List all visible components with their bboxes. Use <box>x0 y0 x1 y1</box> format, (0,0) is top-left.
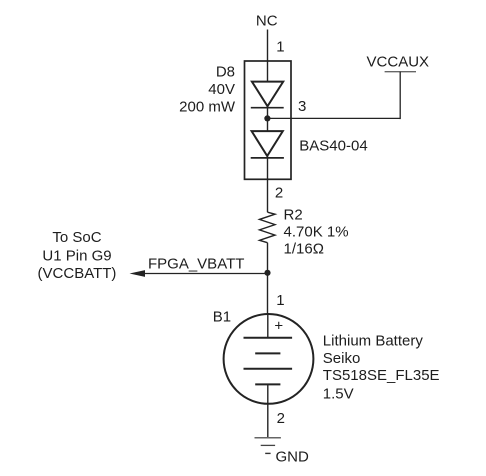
node FPGA_VBATT junction <box>264 270 270 276</box>
svg-text:1: 1 <box>276 292 284 309</box>
wire pin 3 to VCCAUX <box>267 117 400 119</box>
resistor R2 <box>260 212 276 243</box>
label To SoC U1 Pin G9 (VCCBATT) <box>38 229 117 282</box>
svg-text:1/16Ω: 1/16Ω <box>284 240 324 257</box>
svg-text:To SoC: To SoC <box>52 229 101 246</box>
label D8 40V 200 mW <box>179 64 236 116</box>
svg-text:3: 3 <box>298 98 306 115</box>
svg-text:NC: NC <box>256 13 278 30</box>
wire between diodes <box>267 106 269 131</box>
diode package D8 outline <box>245 61 292 179</box>
svg-text:BAS40-04: BAS40-04 <box>299 138 367 155</box>
svg-text:D8: D8 <box>216 64 235 81</box>
svg-text:+: + <box>274 318 283 335</box>
battery B1 circle <box>224 314 314 404</box>
svg-text:FPGA_VBATT: FPGA_VBATT <box>148 255 244 272</box>
svg-text:2: 2 <box>277 410 285 427</box>
wire into battery top <box>267 314 269 338</box>
svg-text:200 mW: 200 mW <box>179 99 236 116</box>
wire NC to diode package <box>267 30 269 82</box>
svg-text:U1 Pin G9: U1 Pin G9 <box>42 247 111 264</box>
svg-text:R2: R2 <box>284 206 303 223</box>
wire resistor to battery <box>267 243 269 315</box>
label R2 4.70K 1% 1/16ohm <box>284 206 349 257</box>
wire battery to ground <box>267 384 269 437</box>
wire VCCAUX down <box>399 72 401 119</box>
svg-text:4.70K 1%: 4.70K 1% <box>284 223 349 240</box>
svg-text:40V: 40V <box>208 81 235 98</box>
junction node pin 3 <box>264 115 270 121</box>
diode D8b (lower) <box>251 131 284 158</box>
wire FPGA_VBATT arrow <box>130 270 268 277</box>
svg-text:VCCAUX: VCCAUX <box>367 54 430 71</box>
svg-text:1.5V: 1.5V <box>323 386 354 403</box>
svg-text:(VCCBATT): (VCCBATT) <box>38 265 117 282</box>
svg-text:2: 2 <box>275 185 283 202</box>
svg-text:Seiko: Seiko <box>323 350 361 367</box>
svg-text:TS518SE_FL35E: TS518SE_FL35E <box>323 367 440 384</box>
label Lithium Battery Seiko TS518SE_FL35E 1.5V <box>323 333 440 403</box>
diode D8a (upper) <box>251 82 284 108</box>
power VCCAUX bar <box>385 71 416 73</box>
wire diode package to resistor <box>267 156 269 212</box>
svg-text:Lithium Battery: Lithium Battery <box>323 333 424 350</box>
svg-text:GND: GND <box>276 449 310 466</box>
battery plates <box>244 338 293 385</box>
svg-text:B1: B1 <box>213 309 231 326</box>
svg-text:1: 1 <box>276 39 284 56</box>
ground symbol <box>255 438 281 454</box>
